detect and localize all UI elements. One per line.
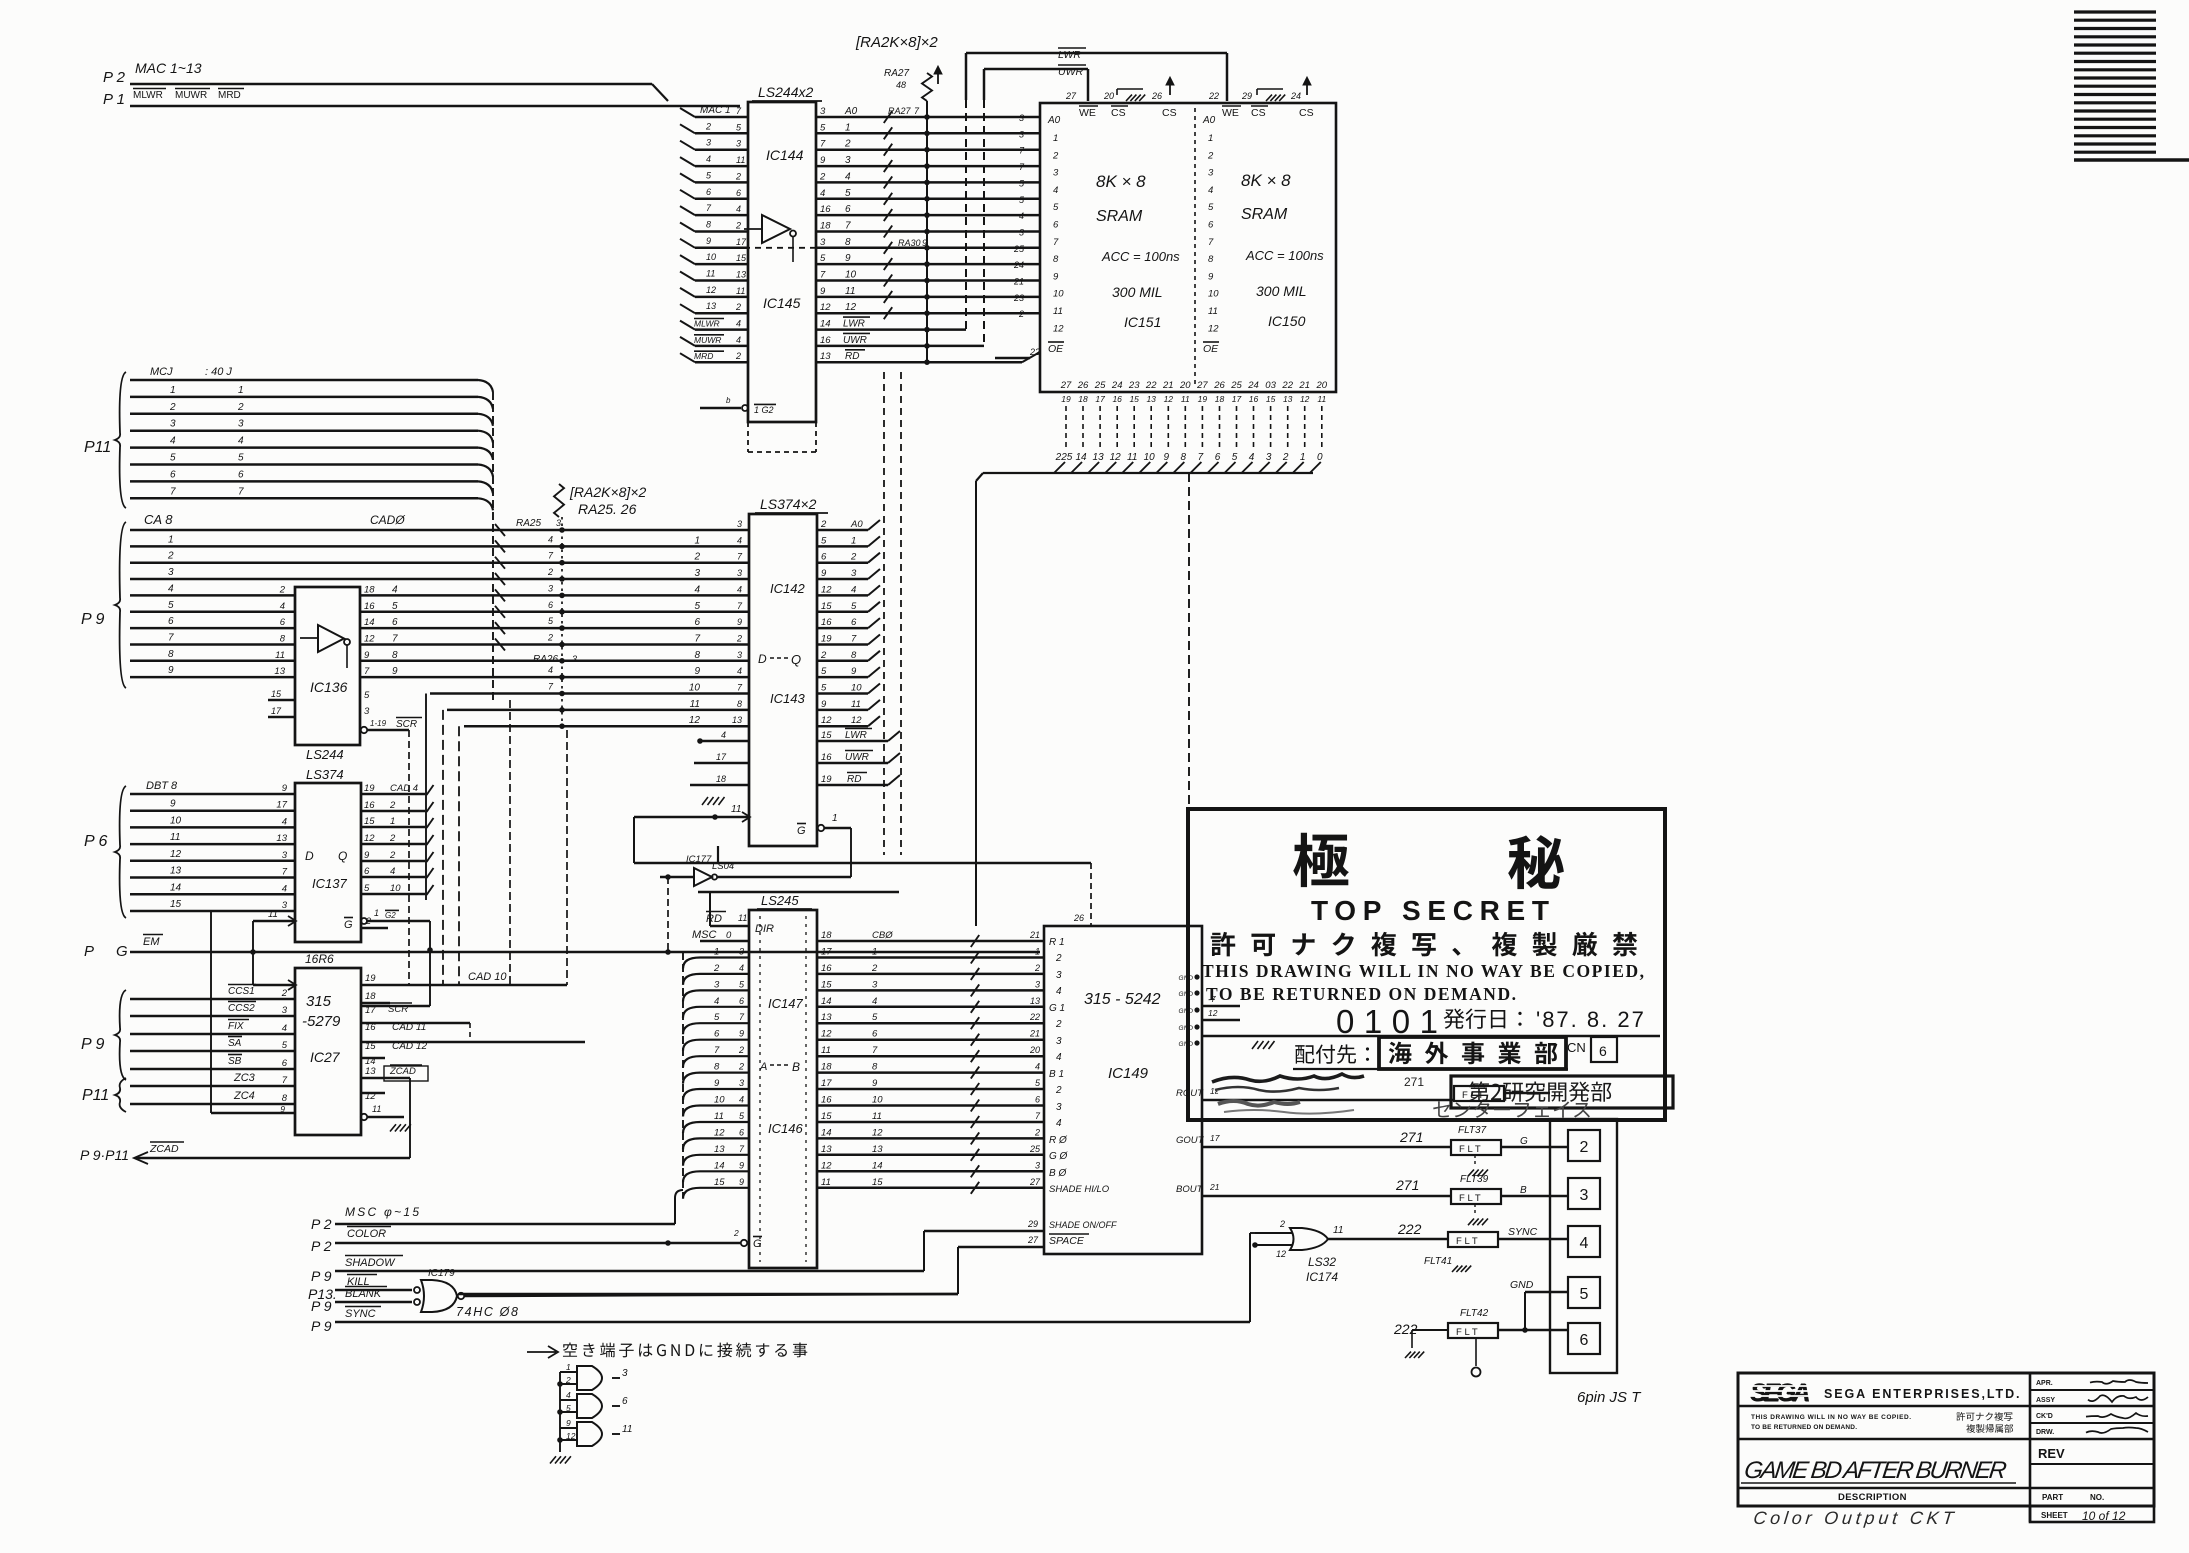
svg-text:2: 2 <box>733 1228 739 1238</box>
svg-text:RA27: RA27 <box>888 106 912 116</box>
svg-text:[RA2K×8]×2: [RA2K×8]×2 <box>855 34 938 51</box>
svg-text:12: 12 <box>170 849 182 860</box>
svg-text:16: 16 <box>821 1095 832 1106</box>
wire P11 row 2 <box>130 396 478 399</box>
svg-text:6: 6 <box>392 617 398 628</box>
transceiver IC147/IC146 LS245 body <box>749 910 817 1268</box>
wire CA bus row 9 <box>130 660 295 663</box>
wire IC144 input row 8 <box>695 230 748 233</box>
svg-text:2: 2 <box>1055 1019 1062 1030</box>
wire P6 bus row 3 <box>130 826 295 829</box>
wire MSC bus vertical <box>682 952 684 1198</box>
wire IC147 output row 10 to IC149 <box>817 1104 1044 1107</box>
svg-text:GND: GND <box>1179 1008 1194 1015</box>
stamp TOP SECRET box <box>1188 809 1665 1120</box>
svg-text:19: 19 <box>1198 394 1208 404</box>
svg-text:3: 3 <box>1035 1160 1040 1170</box>
wire CA bus row 7 <box>130 627 295 630</box>
junction RA25 tap row 6 <box>559 609 565 615</box>
titleblock handwritten Color Output CKT <box>1752 1508 1956 1528</box>
inverter IC177 LS04 <box>694 868 712 886</box>
svg-text:P 9: P 9 <box>81 611 105 628</box>
svg-text:12: 12 <box>845 302 857 313</box>
svg-text:4: 4 <box>1056 1118 1062 1129</box>
svg-text:IC149: IC149 <box>1108 1065 1149 1082</box>
svg-text:4: 4 <box>820 188 825 199</box>
svg-text:13: 13 <box>821 1144 832 1155</box>
svg-text:20: 20 <box>1029 1045 1040 1055</box>
wire ZC4 row <box>130 1103 295 1106</box>
svg-text:15: 15 <box>170 899 182 910</box>
svg-text:4: 4 <box>739 1095 744 1105</box>
svg-text:P 9: P 9 <box>311 1298 332 1314</box>
wire IC144 input row 16 <box>695 361 748 364</box>
svg-text:11: 11 <box>372 1104 381 1114</box>
wire IC144 LWR output row <box>816 328 966 331</box>
svg-text:7: 7 <box>168 633 174 644</box>
svg-text:22: 22 <box>1029 1012 1040 1022</box>
svg-text:B: B <box>1520 1185 1527 1196</box>
svg-text:13: 13 <box>170 866 182 877</box>
svg-text:1 G2: 1 G2 <box>754 405 774 415</box>
svg-text:GND: GND <box>1179 1041 1194 1048</box>
svg-text:IC27: IC27 <box>310 1049 341 1065</box>
svg-text:1: 1 <box>845 122 851 133</box>
wire P11 row 3 <box>130 413 478 416</box>
svg-text:13: 13 <box>736 270 746 280</box>
svg-text:1-19: 1-19 <box>370 719 387 728</box>
junction RA25 tap row 1 <box>559 527 565 533</box>
svg-text:B Ø: B Ø <box>1049 1168 1067 1179</box>
svg-text:12: 12 <box>851 715 862 726</box>
brace P6 <box>115 786 126 918</box>
svg-text:BLANK: BLANK <box>345 1288 382 1300</box>
svg-text:3: 3 <box>820 106 826 117</box>
svg-text:10: 10 <box>872 1095 883 1106</box>
svg-text:GOUT: GOUT <box>1176 1135 1205 1146</box>
svg-text:26: 26 <box>1151 91 1162 101</box>
svg-text:13: 13 <box>714 1144 725 1155</box>
svg-text:4: 4 <box>548 665 553 675</box>
svg-text:11: 11 <box>268 909 278 920</box>
svg-text:3: 3 <box>548 583 553 593</box>
wire vertical strobe bus A <box>883 372 885 855</box>
svg-text:-5279: -5279 <box>302 1013 341 1030</box>
svg-text:4: 4 <box>168 583 174 594</box>
svg-text:MUWR: MUWR <box>694 335 721 345</box>
svg-text:9: 9 <box>1164 452 1170 463</box>
svg-text:7: 7 <box>392 634 398 645</box>
wire IC147 output row 7 to IC149 <box>817 1055 1044 1058</box>
svg-text:3: 3 <box>170 419 176 430</box>
svg-text:12: 12 <box>714 1127 725 1138</box>
svg-text:4: 4 <box>706 154 711 164</box>
wire IC179 output <box>464 1294 958 1296</box>
wire IC144 input row 3 <box>695 148 748 151</box>
svg-text:13: 13 <box>872 1144 883 1155</box>
wire MAC bus from P2 <box>130 83 652 86</box>
pin stub 12 IC149 <box>1202 1019 1240 1022</box>
svg-text:25: 25 <box>1013 244 1025 254</box>
svg-text:6: 6 <box>845 204 851 215</box>
svg-text:18: 18 <box>1215 394 1225 404</box>
svg-text:F L T: F L T <box>1459 1144 1481 1155</box>
svg-text:2: 2 <box>547 633 553 643</box>
buffer IC144/IC145 LS244x2 body <box>748 102 816 422</box>
svg-text:3: 3 <box>282 1005 288 1016</box>
svg-text:OE: OE <box>1203 343 1219 355</box>
wire IC144 input row 7 <box>695 214 748 217</box>
svg-text:23: 23 <box>1128 380 1140 391</box>
wire vertical bus x567 <box>566 730 568 985</box>
svg-text:222: 222 <box>1397 1221 1422 1237</box>
svg-text:SHEET: SHEET <box>2041 1511 2068 1520</box>
stamp text center interface <box>1433 1101 1590 1118</box>
svg-text:3: 3 <box>872 979 878 990</box>
wire FLT42 to pin 6 <box>1498 1329 1568 1332</box>
wire SRAM data drop col 8 <box>1184 406 1186 447</box>
svg-text:1: 1 <box>1300 452 1306 463</box>
power arrow at IC151 CS2 <box>1169 79 1171 95</box>
gate spare AND 1 <box>577 1366 602 1390</box>
ground below FLT37 <box>1474 1155 1476 1166</box>
svg-text:10: 10 <box>851 683 862 694</box>
svg-text:ZC3: ZC3 <box>233 1072 256 1084</box>
svg-text:9: 9 <box>364 650 370 661</box>
svg-text:18: 18 <box>821 930 832 941</box>
wire SYNC riser to IC174 <box>1249 1233 1251 1322</box>
wire P9 SB row <box>130 1068 295 1071</box>
svg-text:13: 13 <box>1093 452 1105 463</box>
svg-text:4: 4 <box>737 584 742 594</box>
svg-text:2: 2 <box>1052 150 1059 161</box>
wire IC137 output row 1 <box>361 793 425 796</box>
svg-text:1: 1 <box>694 535 700 546</box>
wire IC145 UWR output row <box>816 345 984 348</box>
svg-text:5: 5 <box>238 453 244 464</box>
svg-text:9: 9 <box>170 799 176 810</box>
svg-text:CBØ: CBØ <box>872 930 893 941</box>
svg-text:DRW.: DRW. <box>2036 1429 2054 1436</box>
wire IC142 output row 4 <box>817 578 868 581</box>
svg-text:13: 13 <box>706 301 716 311</box>
svg-text:271: 271 <box>1404 1075 1424 1089</box>
svg-text:4: 4 <box>1019 211 1024 221</box>
svg-text:9: 9 <box>1208 271 1214 282</box>
signature ASSY <box>2088 1395 2148 1402</box>
svg-text:1: 1 <box>170 385 176 396</box>
svg-text:14: 14 <box>364 617 375 628</box>
wire MSC input row 7 <box>683 1056 749 1067</box>
svg-text:REV: REV <box>2038 1446 2065 1461</box>
svg-text:16: 16 <box>820 335 831 346</box>
titleblock divider vertical <box>2029 1373 2032 1522</box>
wire IC147 output row 3 to IC149 <box>817 989 1044 992</box>
junction RA25 tap row 4 <box>559 576 565 582</box>
svg-text:14: 14 <box>1075 452 1087 463</box>
svg-text:8: 8 <box>845 237 851 248</box>
svg-text:15: 15 <box>714 1177 725 1188</box>
wire P11 row 7 <box>130 480 478 483</box>
svg-text:8: 8 <box>1053 254 1059 265</box>
svg-text:20: 20 <box>1179 380 1191 391</box>
svg-text:F L T: F L T <box>1459 1193 1481 1204</box>
wire CAD10 output IC27 <box>361 984 567 987</box>
gate spare AND 3 <box>577 1422 602 1446</box>
stamp box 6 <box>1591 1037 1617 1062</box>
wire P6 bus row 2 <box>130 809 295 812</box>
wire long net to IC149 pin 26 <box>717 846 719 863</box>
wire IC144 input row 9 <box>695 247 748 250</box>
svg-text:CCS2: CCS2 <box>228 1003 255 1014</box>
svg-text:17: 17 <box>1095 394 1105 404</box>
wire SRAM data drop col 15 <box>1304 406 1306 447</box>
svg-text:3: 3 <box>556 518 561 528</box>
wire SHADOW to SHADE ON/OFF pin 29 <box>335 1270 924 1273</box>
svg-text:8: 8 <box>694 650 700 661</box>
svg-text:G2: G2 <box>385 911 396 920</box>
wire IC147 output row 8 to IC149 <box>817 1071 1044 1074</box>
svg-text:DESCRIPTION: DESCRIPTION <box>1838 1492 1908 1503</box>
wire IC144 output row 13 to SRAM <box>816 312 1040 315</box>
wire SCR output IC27 <box>361 1005 430 1008</box>
svg-text:7: 7 <box>364 666 370 677</box>
wire MSC input row 10 <box>683 1106 749 1117</box>
wire P6 bus row 4 <box>130 843 295 846</box>
svg-text:1: 1 <box>374 908 379 918</box>
pin 11 clock IC137 <box>253 920 295 923</box>
svg-text:3: 3 <box>737 568 742 578</box>
wire IC142 output row 10 <box>817 676 868 679</box>
ground near IC149 right <box>1252 1041 1258 1049</box>
wire IC144 input row 14 <box>695 328 748 331</box>
svg-text:RA25: RA25 <box>516 518 541 529</box>
wire P9 FIX row <box>130 1033 295 1036</box>
svg-text:12: 12 <box>1208 323 1219 334</box>
svg-text:LS374: LS374 <box>306 767 344 782</box>
svg-text:21: 21 <box>1029 930 1040 940</box>
svg-text:3: 3 <box>1056 1102 1062 1113</box>
stamp department box <box>1451 1076 1673 1108</box>
svg-text:RA30: RA30 <box>898 238 921 248</box>
wire IC144 input row 11 <box>695 279 748 282</box>
svg-text:2: 2 <box>735 221 741 231</box>
connector pin box 3 <box>1568 1178 1600 1209</box>
svg-text:11: 11 <box>736 286 745 296</box>
svg-text:ZCAD: ZCAD <box>389 1066 416 1077</box>
svg-text:27: 27 <box>1196 380 1208 391</box>
svg-text:6: 6 <box>821 552 827 563</box>
svg-text:1: 1 <box>566 1362 571 1372</box>
svg-text:P 2: P 2 <box>311 1216 332 1232</box>
svg-text:11: 11 <box>1181 394 1190 404</box>
svg-text:4: 4 <box>721 730 726 740</box>
wire IC147 output row 15 to IC149 <box>817 1187 1044 1190</box>
svg-text:3: 3 <box>739 1078 744 1088</box>
svg-text:20: 20 <box>1316 380 1328 391</box>
wire IC147 output row 13 to IC149 <box>817 1154 1044 1157</box>
svg-text:3: 3 <box>737 650 742 660</box>
svg-text:4: 4 <box>566 1390 571 1400</box>
wire BOUT <box>1202 1195 1451 1198</box>
wire vertical bus x510 <box>509 700 511 985</box>
wire P6 bus row 8 <box>130 910 295 913</box>
svg-text:5: 5 <box>1053 202 1059 213</box>
stamp kanji HI <box>1508 835 1564 889</box>
svg-text:4: 4 <box>714 996 719 1007</box>
svg-text:FLT42: FLT42 <box>1460 1308 1489 1319</box>
svg-text:4: 4 <box>282 883 287 894</box>
svg-text:15: 15 <box>821 730 832 741</box>
svg-text:B 1: B 1 <box>1049 1069 1064 1080</box>
svg-text:7: 7 <box>820 139 826 150</box>
svg-text:12: 12 <box>566 1431 576 1441</box>
wire spare gate ground bus <box>559 1372 561 1452</box>
wire EM to IC27 clock <box>252 952 254 985</box>
svg-text:5: 5 <box>1580 1286 1589 1303</box>
wire P11 row 1 <box>130 379 478 382</box>
stamp kanji GOKU <box>1293 833 1349 887</box>
svg-text:17: 17 <box>821 947 832 958</box>
svg-text:3: 3 <box>1208 168 1214 179</box>
svg-text:15: 15 <box>1266 394 1276 404</box>
svg-text:2: 2 <box>1018 309 1024 319</box>
svg-text:2: 2 <box>565 1375 571 1385</box>
wire IC144 output row 8 to SRAM <box>816 230 1040 233</box>
svg-text:2: 2 <box>389 850 396 861</box>
wire SRAM data drop col 5 <box>1133 406 1135 447</box>
svg-text:F L T: F L T <box>1456 1236 1478 1247</box>
svg-text:4: 4 <box>1056 986 1062 997</box>
svg-text:2: 2 <box>281 988 288 999</box>
svg-text:4: 4 <box>739 963 744 973</box>
svg-text:12: 12 <box>821 1029 832 1040</box>
wire IC144 input row 2 <box>695 132 748 135</box>
svg-text:5: 5 <box>820 122 826 133</box>
svg-text:2: 2 <box>1055 953 1062 964</box>
svg-text:IC179: IC179 <box>428 1268 455 1279</box>
svg-text:5: 5 <box>1208 202 1214 213</box>
connector pin box 5 <box>1568 1277 1600 1308</box>
svg-text:26: 26 <box>1077 380 1089 391</box>
svg-text:2: 2 <box>738 1062 744 1072</box>
register IC142/IC143 LS374x2 body <box>749 514 817 846</box>
junction RA25 tap row 2 <box>559 544 565 550</box>
svg-text:1: 1 <box>168 534 174 545</box>
wire SRAM data drop col 1 <box>1065 406 1067 447</box>
wire IC179 output to SPACE pin 27 <box>459 1293 958 1296</box>
svg-text:12: 12 <box>1276 1249 1286 1259</box>
svg-text:1: 1 <box>832 813 838 824</box>
wire CA bus row 3 <box>130 561 749 564</box>
wire COLOR to G of LS245 <box>335 1242 740 1245</box>
note spare gates to GND (Japanese) <box>527 1346 558 1358</box>
svg-text:21: 21 <box>1209 1182 1220 1192</box>
svg-text:5: 5 <box>566 1403 571 1413</box>
svg-text:18: 18 <box>821 1062 832 1073</box>
wire IC144 input row 5 <box>695 181 748 184</box>
svg-text:8: 8 <box>706 220 711 230</box>
svg-text:8: 8 <box>1208 254 1214 265</box>
svg-text:5: 5 <box>170 453 176 464</box>
svg-text:SEGA: SEGA <box>1751 1380 1811 1408</box>
svg-text:7: 7 <box>1208 237 1214 248</box>
wire SRAM data drop col 7 <box>1167 406 1169 447</box>
svg-text:11: 11 <box>872 1111 882 1122</box>
wire SRAM data drop col 14 <box>1287 406 1289 447</box>
svg-text:RA27: RA27 <box>884 68 909 79</box>
svg-text:RA25. 26: RA25. 26 <box>578 501 637 517</box>
svg-text:9: 9 <box>280 1104 285 1114</box>
svg-text:CAD 10: CAD 10 <box>468 971 507 983</box>
svg-text:3: 3 <box>282 900 288 911</box>
svg-text:3: 3 <box>1053 168 1059 179</box>
svg-text:b: b <box>726 396 731 405</box>
svg-text:6: 6 <box>739 996 744 1006</box>
svg-text:14: 14 <box>872 1160 883 1171</box>
svg-text:LS32: LS32 <box>1308 1255 1336 1269</box>
svg-text:4: 4 <box>1053 185 1058 196</box>
svg-text:9: 9 <box>739 1160 744 1170</box>
svg-text:IC144: IC144 <box>766 147 804 163</box>
svg-text:24: 24 <box>1013 260 1024 270</box>
svg-text:MRD: MRD <box>218 90 241 101</box>
svg-text:B: B <box>792 1060 800 1074</box>
wire CA bus row 13 <box>464 725 749 728</box>
wire CA bus row 12 <box>447 709 749 712</box>
memory IC151/IC150 8Kx8 SRAM body <box>1040 103 1336 392</box>
svg-text:CS: CS <box>1299 107 1314 119</box>
junction RA25 tap row 13 <box>559 723 565 729</box>
svg-text:1: 1 <box>872 947 877 958</box>
svg-text:A0: A0 <box>850 519 863 530</box>
svg-text:7: 7 <box>1198 452 1204 463</box>
svg-text:9: 9 <box>922 238 927 248</box>
svg-text:271: 271 <box>1399 1129 1423 1145</box>
svg-text:CS: CS <box>1111 107 1126 119</box>
wire MSC input row 13 <box>683 1155 749 1166</box>
svg-text:10: 10 <box>390 883 401 894</box>
svg-text:2: 2 <box>735 302 741 312</box>
logo SEGA <box>1750 1379 1811 1408</box>
svg-text:11: 11 <box>736 155 745 165</box>
wire P11 row 8 <box>130 497 478 500</box>
svg-text:12: 12 <box>821 1160 832 1171</box>
svg-text:2: 2 <box>169 402 176 413</box>
ground below FLT39 <box>1474 1204 1476 1214</box>
svg-text:225: 225 <box>1055 452 1073 463</box>
buffer symbol inside IC136 <box>318 625 344 652</box>
svg-text:9: 9 <box>714 1078 720 1089</box>
svg-text:SHADOW: SHADOW <box>345 1257 396 1269</box>
svg-text:RA26: RA26 <box>533 654 558 665</box>
wire P11 row 4 <box>130 429 478 432</box>
wire GOUT <box>1202 1146 1451 1149</box>
svg-text:SYNC: SYNC <box>1508 1226 1538 1238</box>
svg-text:3: 3 <box>364 706 370 717</box>
wire IC147 output row 14 to IC149 <box>817 1170 1044 1173</box>
titleblock row lines <box>1738 1405 2154 1407</box>
svg-text:27: 27 <box>1065 91 1077 101</box>
wire IC142 output row 5 <box>817 594 868 597</box>
svg-text:23: 23 <box>1013 293 1024 303</box>
svg-text:48: 48 <box>896 80 906 90</box>
svg-text:22: 22 <box>1208 91 1219 101</box>
svg-text:2: 2 <box>1282 452 1289 463</box>
svg-text:G: G <box>753 1238 762 1250</box>
junction RA25 tap row 7 <box>559 625 565 631</box>
svg-text:11: 11 <box>845 286 855 297</box>
